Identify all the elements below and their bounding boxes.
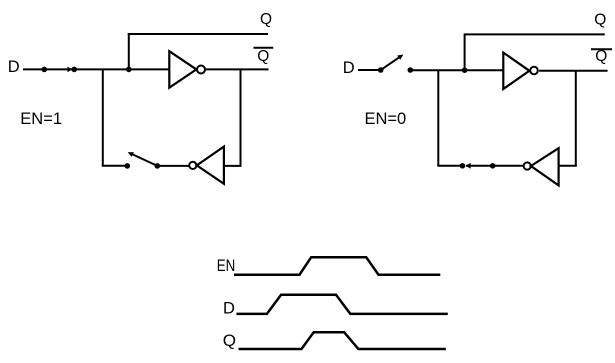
svg-text:EN=1: EN=1 bbox=[20, 110, 62, 128]
closed switch arrowhead pointing left (right feedback switch) bbox=[466, 163, 471, 169]
wire feedback inverter input (left) bbox=[224, 165, 242, 167]
node dot switch contact (left input switch) bbox=[71, 67, 77, 73]
node dot on D wire (left) bbox=[42, 67, 48, 73]
inverter U3 triangle (right forward inverter) bbox=[503, 53, 529, 89]
node dot input switch left contact (right) bbox=[378, 67, 384, 73]
closed switch arrowhead (left input switch) bbox=[67, 67, 72, 73]
svg-text:D: D bbox=[343, 59, 355, 77]
inverter U2 bubble (left feedback inverter) bbox=[189, 162, 196, 169]
svg-text:Q: Q bbox=[595, 48, 607, 65]
wire vertical left feedback branch (left) bbox=[102, 69, 104, 165]
inverter U1 triangle (left forward inverter) bbox=[169, 51, 196, 87]
node dot input switch right contact (right) bbox=[408, 67, 414, 73]
wire vertical up to Q line (left) bbox=[128, 34, 130, 69]
wire D input stub (right) bbox=[358, 69, 381, 71]
svg-text:EN=0: EN=0 bbox=[365, 110, 407, 128]
svg-text:Q: Q bbox=[260, 11, 272, 28]
wire feedback switch closed segment (right) bbox=[466, 165, 524, 167]
wire Qbar output (left) bbox=[205, 68, 268, 70]
wire vertical feedback right (right) bbox=[575, 71, 577, 166]
svg-text:Q: Q bbox=[257, 48, 269, 65]
wire feedback inverter input (right) bbox=[559, 165, 577, 167]
node junction dot to Q line (right) bbox=[462, 67, 468, 73]
wire Q output top line (left) bbox=[128, 33, 268, 35]
wire vertical feedback right (left) bbox=[240, 69, 242, 165]
svg-text:EN: EN bbox=[217, 257, 236, 275]
inverter U4 triangle (right feedback inverter, points left) bbox=[531, 148, 559, 185]
open switch arrowhead (left feedback switch) bbox=[128, 152, 134, 157]
svg-text:D: D bbox=[223, 299, 235, 317]
svg-text:Q: Q bbox=[223, 331, 236, 350]
inverter U4 bubble (right feedback inverter) bbox=[524, 162, 531, 169]
wire D input (left) bbox=[23, 68, 169, 70]
node junction dot to Q line (left) bbox=[126, 67, 132, 73]
waveform Q bbox=[239, 332, 446, 349]
svg-text:D: D bbox=[8, 58, 20, 76]
open switch arm (left feedback switch) bbox=[133, 154, 158, 166]
wire main input (right) bbox=[410, 69, 503, 71]
inverter U1 bubble bbox=[197, 66, 205, 74]
open switch arm (right input switch) bbox=[381, 57, 400, 70]
label Qbar overbar (left) bbox=[254, 47, 274, 49]
wire Q output top line (right) bbox=[464, 33, 605, 35]
inverter U3 bubble bbox=[530, 67, 538, 75]
open switch arrowhead (right input switch) bbox=[397, 55, 403, 60]
waveform EN bbox=[234, 257, 440, 275]
wire feedback to inverter bubble (left) bbox=[157, 165, 188, 167]
wire feedback bottom left segment (right) bbox=[437, 165, 462, 167]
wire vertical up to Q line (right) bbox=[464, 34, 466, 70]
node dot feedback switch right contact (right) bbox=[490, 163, 496, 169]
waveform D bbox=[236, 295, 447, 314]
wire vertical left feedback branch (right) bbox=[437, 70, 439, 166]
svg-text:Q: Q bbox=[594, 11, 606, 28]
node dot feedback switch left contact (left) bbox=[125, 163, 131, 169]
node dot feedback switch left contact (right) bbox=[460, 163, 466, 169]
inverter U2 triangle (left feedback inverter, points left) bbox=[197, 147, 224, 184]
wire feedback bottom left segment (left) bbox=[102, 165, 128, 167]
label Qbar overbar (right) bbox=[591, 48, 612, 50]
wire Qbar output (right) bbox=[539, 70, 608, 72]
node dot feedback switch right contact (left) bbox=[155, 163, 161, 169]
